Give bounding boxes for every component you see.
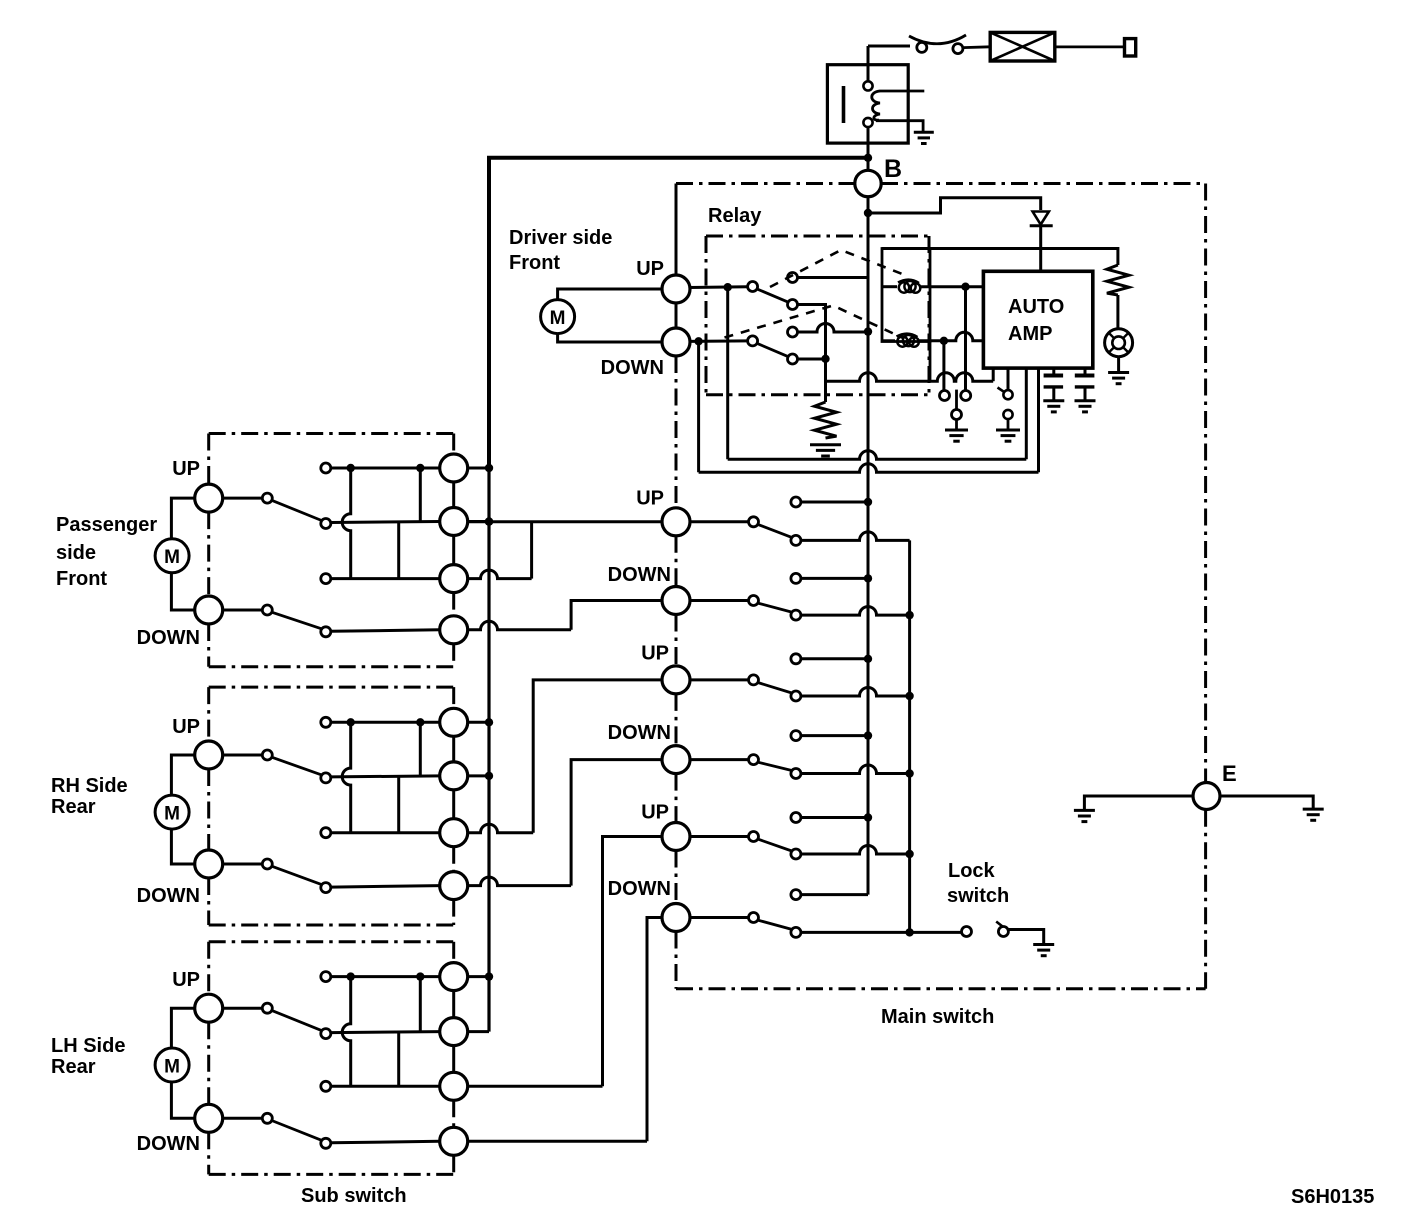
- svg-text:E: E: [1222, 761, 1237, 786]
- wire: node E to grounds: [1084, 796, 1192, 810]
- motor M (Passenger side Front): [171, 498, 194, 610]
- terminal circle row 2: [662, 587, 690, 615]
- svg-text:UP: UP: [641, 643, 669, 665]
- svg-text:Driver side: Driver side: [509, 227, 612, 249]
- wire: driver DOWN sense to AUTO AMP (H3): [697, 341, 700, 472]
- svg-text:M: M: [164, 547, 180, 568]
- svg-text:DOWN: DOWN: [137, 885, 200, 907]
- terminal circle row 4: [662, 746, 690, 774]
- sub switch feed bus (long vertical): [487, 468, 490, 1032]
- svg-text:Rear: Rear: [51, 796, 96, 818]
- ground (E right): [1303, 809, 1324, 820]
- contact row wires (LH Side Rear): [331, 975, 440, 978]
- svg-text:UP: UP: [636, 258, 664, 280]
- ground (lock switch): [1033, 945, 1054, 956]
- ground (E left): [1074, 810, 1095, 821]
- ground (pilot lamp): [1108, 373, 1129, 384]
- enclosure (LH Side Rear): [209, 940, 454, 943]
- ignition relay pin (bottom): [863, 118, 872, 127]
- wire: LH c3 to row5 UP: [467, 1085, 602, 1088]
- relay switch 1 (UP contact set): [798, 276, 869, 279]
- ignition relay box: [827, 65, 908, 143]
- switch A (LH Side Rear): [223, 1007, 263, 1010]
- terminals (RH Side Rear): [195, 741, 223, 769]
- svg-text:DOWN: DOWN: [608, 878, 671, 900]
- svg-text:Front: Front: [509, 252, 560, 274]
- wire: RH c3 to row3 UP: [467, 824, 533, 833]
- fuse: [990, 32, 1055, 61]
- relay enclosure (dash-dot): [706, 235, 929, 238]
- svg-text:UP: UP: [172, 716, 200, 738]
- ground (relay position switch): [945, 430, 968, 441]
- switch B (LH Side Rear): [223, 1117, 263, 1120]
- ground (sense resistor): [810, 445, 841, 456]
- pilot lamp: [1105, 329, 1133, 357]
- enclosure (Passenger side Front): [209, 432, 454, 435]
- svg-text:M: M: [164, 1056, 180, 1077]
- svg-text:Sub switch: Sub switch: [301, 1185, 407, 1207]
- svg-text:AUTO: AUTO: [1008, 296, 1064, 318]
- node E: [1193, 783, 1220, 810]
- terminals (LH Side Rear): [195, 994, 223, 1022]
- AMP switch to ground: [1007, 368, 1010, 390]
- wire: diode to AUTO AMP top pin: [1039, 226, 1042, 272]
- ground (C2): [1075, 401, 1096, 412]
- wire: RH c4 to row4 DOWN: [467, 877, 571, 886]
- svg-text:AMP: AMP: [1008, 323, 1052, 345]
- main switch row 2 (DOWN): [690, 599, 749, 602]
- lock switch: [962, 927, 972, 937]
- wire: passenger c3 jog to row1 line: [530, 522, 533, 579]
- enclosure (RH Side Rear): [209, 686, 454, 689]
- wire: B junction to diode: [868, 198, 1041, 213]
- ground (AMP switch): [996, 430, 1020, 441]
- terminals (Passenger side Front): [195, 484, 223, 512]
- main switch row 6 (DOWN): [690, 916, 749, 919]
- svg-text:B: B: [884, 155, 902, 183]
- svg-text:RH Side: RH Side: [51, 775, 128, 797]
- svg-text:UP: UP: [636, 488, 664, 510]
- svg-text:M: M: [164, 804, 180, 825]
- main switch enclosure (dash-dot border): [676, 182, 855, 185]
- resistor (pilot lamp dropping): [1107, 265, 1129, 295]
- wire: LH c4 to row6 DOWN: [467, 1140, 647, 1143]
- svg-text:DOWN: DOWN: [608, 722, 671, 744]
- wire: driver DOWN terminal to relay contact: [690, 339, 748, 343]
- relay monitor contacts to position switch: [942, 341, 945, 391]
- relay coil box: [882, 249, 930, 342]
- wire: supply bus to pilot resistor: [882, 249, 1118, 266]
- terminal circle row 6: [662, 904, 690, 932]
- node B: [855, 170, 881, 196]
- wire: long feed to sub switches (left): [489, 158, 868, 468]
- wire: relay NC contacts to sense resistor: [798, 305, 826, 403]
- svg-text:S6H0135: S6H0135: [1291, 1186, 1374, 1208]
- wire: battery feed from node B junction up into ignition relay: [867, 46, 870, 82]
- svg-text:DOWN: DOWN: [601, 357, 664, 379]
- capacitor C1: [1052, 368, 1055, 374]
- wire: driver UP terminal to relay contact: [690, 285, 748, 289]
- main switch row 4 (DOWN): [690, 758, 749, 761]
- ground (ignition relay coil): [914, 132, 934, 143]
- main vertical bus from node B: [867, 197, 870, 895]
- diode: [1033, 212, 1049, 225]
- terminal circle row 5: [662, 823, 690, 851]
- ignition relay coil: [872, 91, 880, 120]
- main switch row 3 (UP): [690, 678, 749, 681]
- battery terminal connector: [1125, 39, 1136, 56]
- wire: passenger c4 to row2 DOWN: [467, 621, 571, 630]
- ignition relay contact bar: [842, 86, 846, 123]
- svg-text:Passenger: Passenger: [56, 514, 157, 536]
- motor M (driver side front): [558, 289, 662, 342]
- main switch row 5 (UP): [690, 835, 749, 838]
- relay coil 2: [897, 334, 919, 347]
- contact row wires (RH Side Rear): [331, 721, 440, 724]
- wire: row1 UP feed: [467, 520, 662, 523]
- contact row wires (Passenger side Front): [331, 467, 440, 470]
- wire: sense line H1 to AUTO AMP: [826, 373, 994, 382]
- svg-text:DOWN: DOWN: [137, 627, 200, 649]
- svg-text:DOWN: DOWN: [137, 1133, 200, 1155]
- svg-text:Relay: Relay: [708, 205, 762, 227]
- switch A (Passenger side Front): [223, 497, 263, 500]
- relay coil 1: [898, 280, 920, 293]
- svg-text:DOWN: DOWN: [608, 564, 671, 586]
- resistor (motor sense): [815, 402, 837, 438]
- svg-text:Main switch: Main switch: [881, 1006, 994, 1028]
- relay mechanical linkage (dashed): [770, 250, 909, 287]
- main switch row 1 (UP): [690, 520, 749, 523]
- terminal circle row 3: [662, 666, 690, 694]
- svg-text:UP: UP: [172, 458, 200, 480]
- wire: driver UP sense to AUTO AMP (H2): [726, 287, 729, 459]
- ignition switch: [917, 42, 927, 52]
- svg-text:UP: UP: [172, 969, 200, 991]
- motor M (LH Side Rear): [171, 1008, 194, 1118]
- terminal UP (driver): [662, 275, 690, 303]
- svg-text:LH Side: LH Side: [51, 1035, 125, 1057]
- wire: fuse to battery connector: [1055, 46, 1125, 49]
- junction below B: [864, 209, 872, 217]
- terminal circle row 1: [662, 508, 690, 536]
- svg-text:side: side: [56, 542, 96, 564]
- svg-text:Lock: Lock: [948, 860, 996, 882]
- switch A (RH Side Rear): [223, 754, 263, 757]
- svg-text:M: M: [550, 308, 566, 329]
- motor M (RH Side Rear): [171, 755, 194, 864]
- right collector bus: [908, 540, 911, 932]
- ground (C1): [1043, 401, 1064, 412]
- svg-text:switch: switch: [947, 885, 1009, 907]
- relay switch 2 (DOWN contact set): [798, 324, 869, 333]
- svg-text:Rear: Rear: [51, 1056, 96, 1078]
- switch B (RH Side Rear): [223, 863, 263, 866]
- wire: relay bottom pin down to node B: [867, 127, 870, 171]
- svg-text:UP: UP: [641, 802, 669, 824]
- terminal DOWN (driver): [662, 328, 690, 356]
- AUTO AMP unit: [983, 271, 1092, 368]
- switch B (Passenger side Front): [223, 609, 263, 612]
- ignition relay pin (top): [863, 81, 872, 90]
- junction: relay output / left feed wire: [864, 154, 872, 162]
- capacitor C2: [1084, 368, 1087, 374]
- svg-text:Front: Front: [56, 568, 107, 590]
